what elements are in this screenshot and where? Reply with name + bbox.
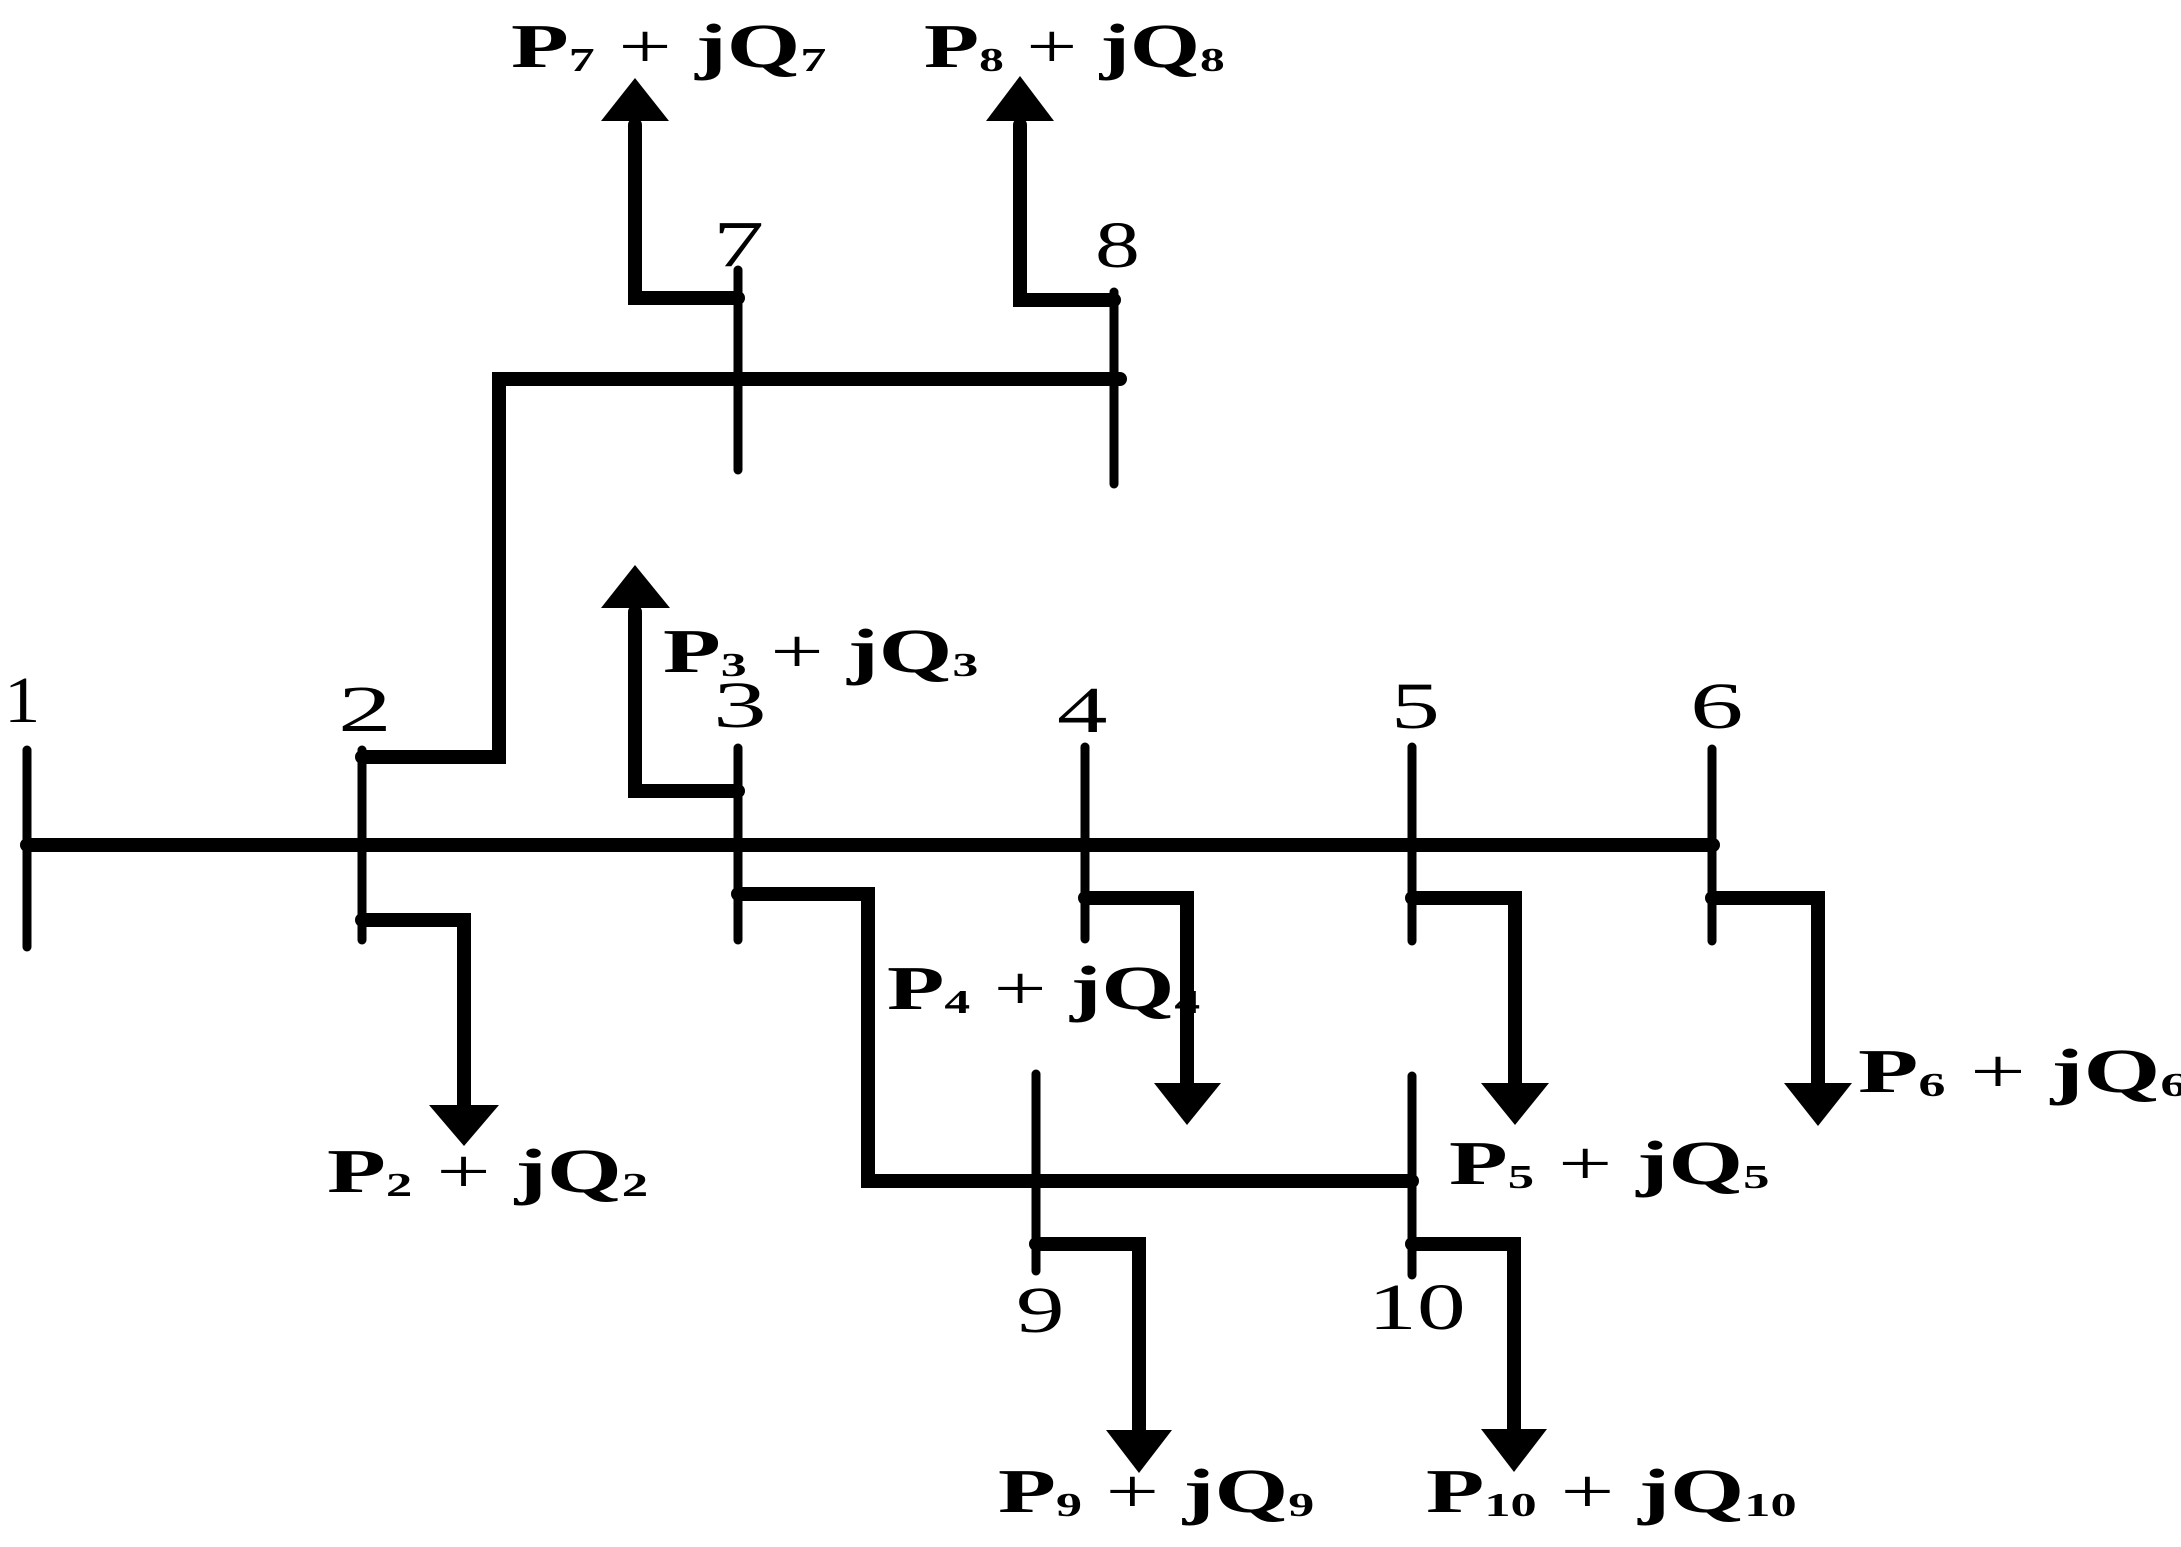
- svg-text:P3 + jQ3: P3 + jQ3: [663, 618, 978, 686]
- svg-text:P2 + jQ2: P2 + jQ2: [327, 1137, 648, 1206]
- svg-text:10: 10: [1368, 1271, 1466, 1344]
- svg-text:4: 4: [1057, 674, 1107, 747]
- svg-text:6: 6: [1690, 670, 1743, 743]
- svg-text:P10 + jQ10: P10 + jQ10: [1426, 1457, 1797, 1526]
- svg-text:P7 + jQ7: P7 + jQ7: [511, 13, 826, 81]
- svg-text:7: 7: [713, 207, 764, 281]
- svg-text:P6 + jQ6: P6 + jQ6: [1858, 1036, 2181, 1105]
- svg-text:P9 + jQ9: P9 + jQ9: [998, 1458, 1314, 1526]
- svg-text:8: 8: [1095, 209, 1140, 282]
- svg-text:9: 9: [1016, 1273, 1065, 1346]
- svg-text:1: 1: [4, 664, 40, 737]
- svg-text:P8 + jQ8: P8 + jQ8: [924, 12, 1225, 81]
- svg-text:P5 + jQ5: P5 + jQ5: [1449, 1130, 1769, 1198]
- svg-text:2: 2: [338, 673, 392, 746]
- svg-text:P4 + jQ4: P4 + jQ4: [887, 954, 1200, 1023]
- svg-text:5: 5: [1391, 670, 1440, 743]
